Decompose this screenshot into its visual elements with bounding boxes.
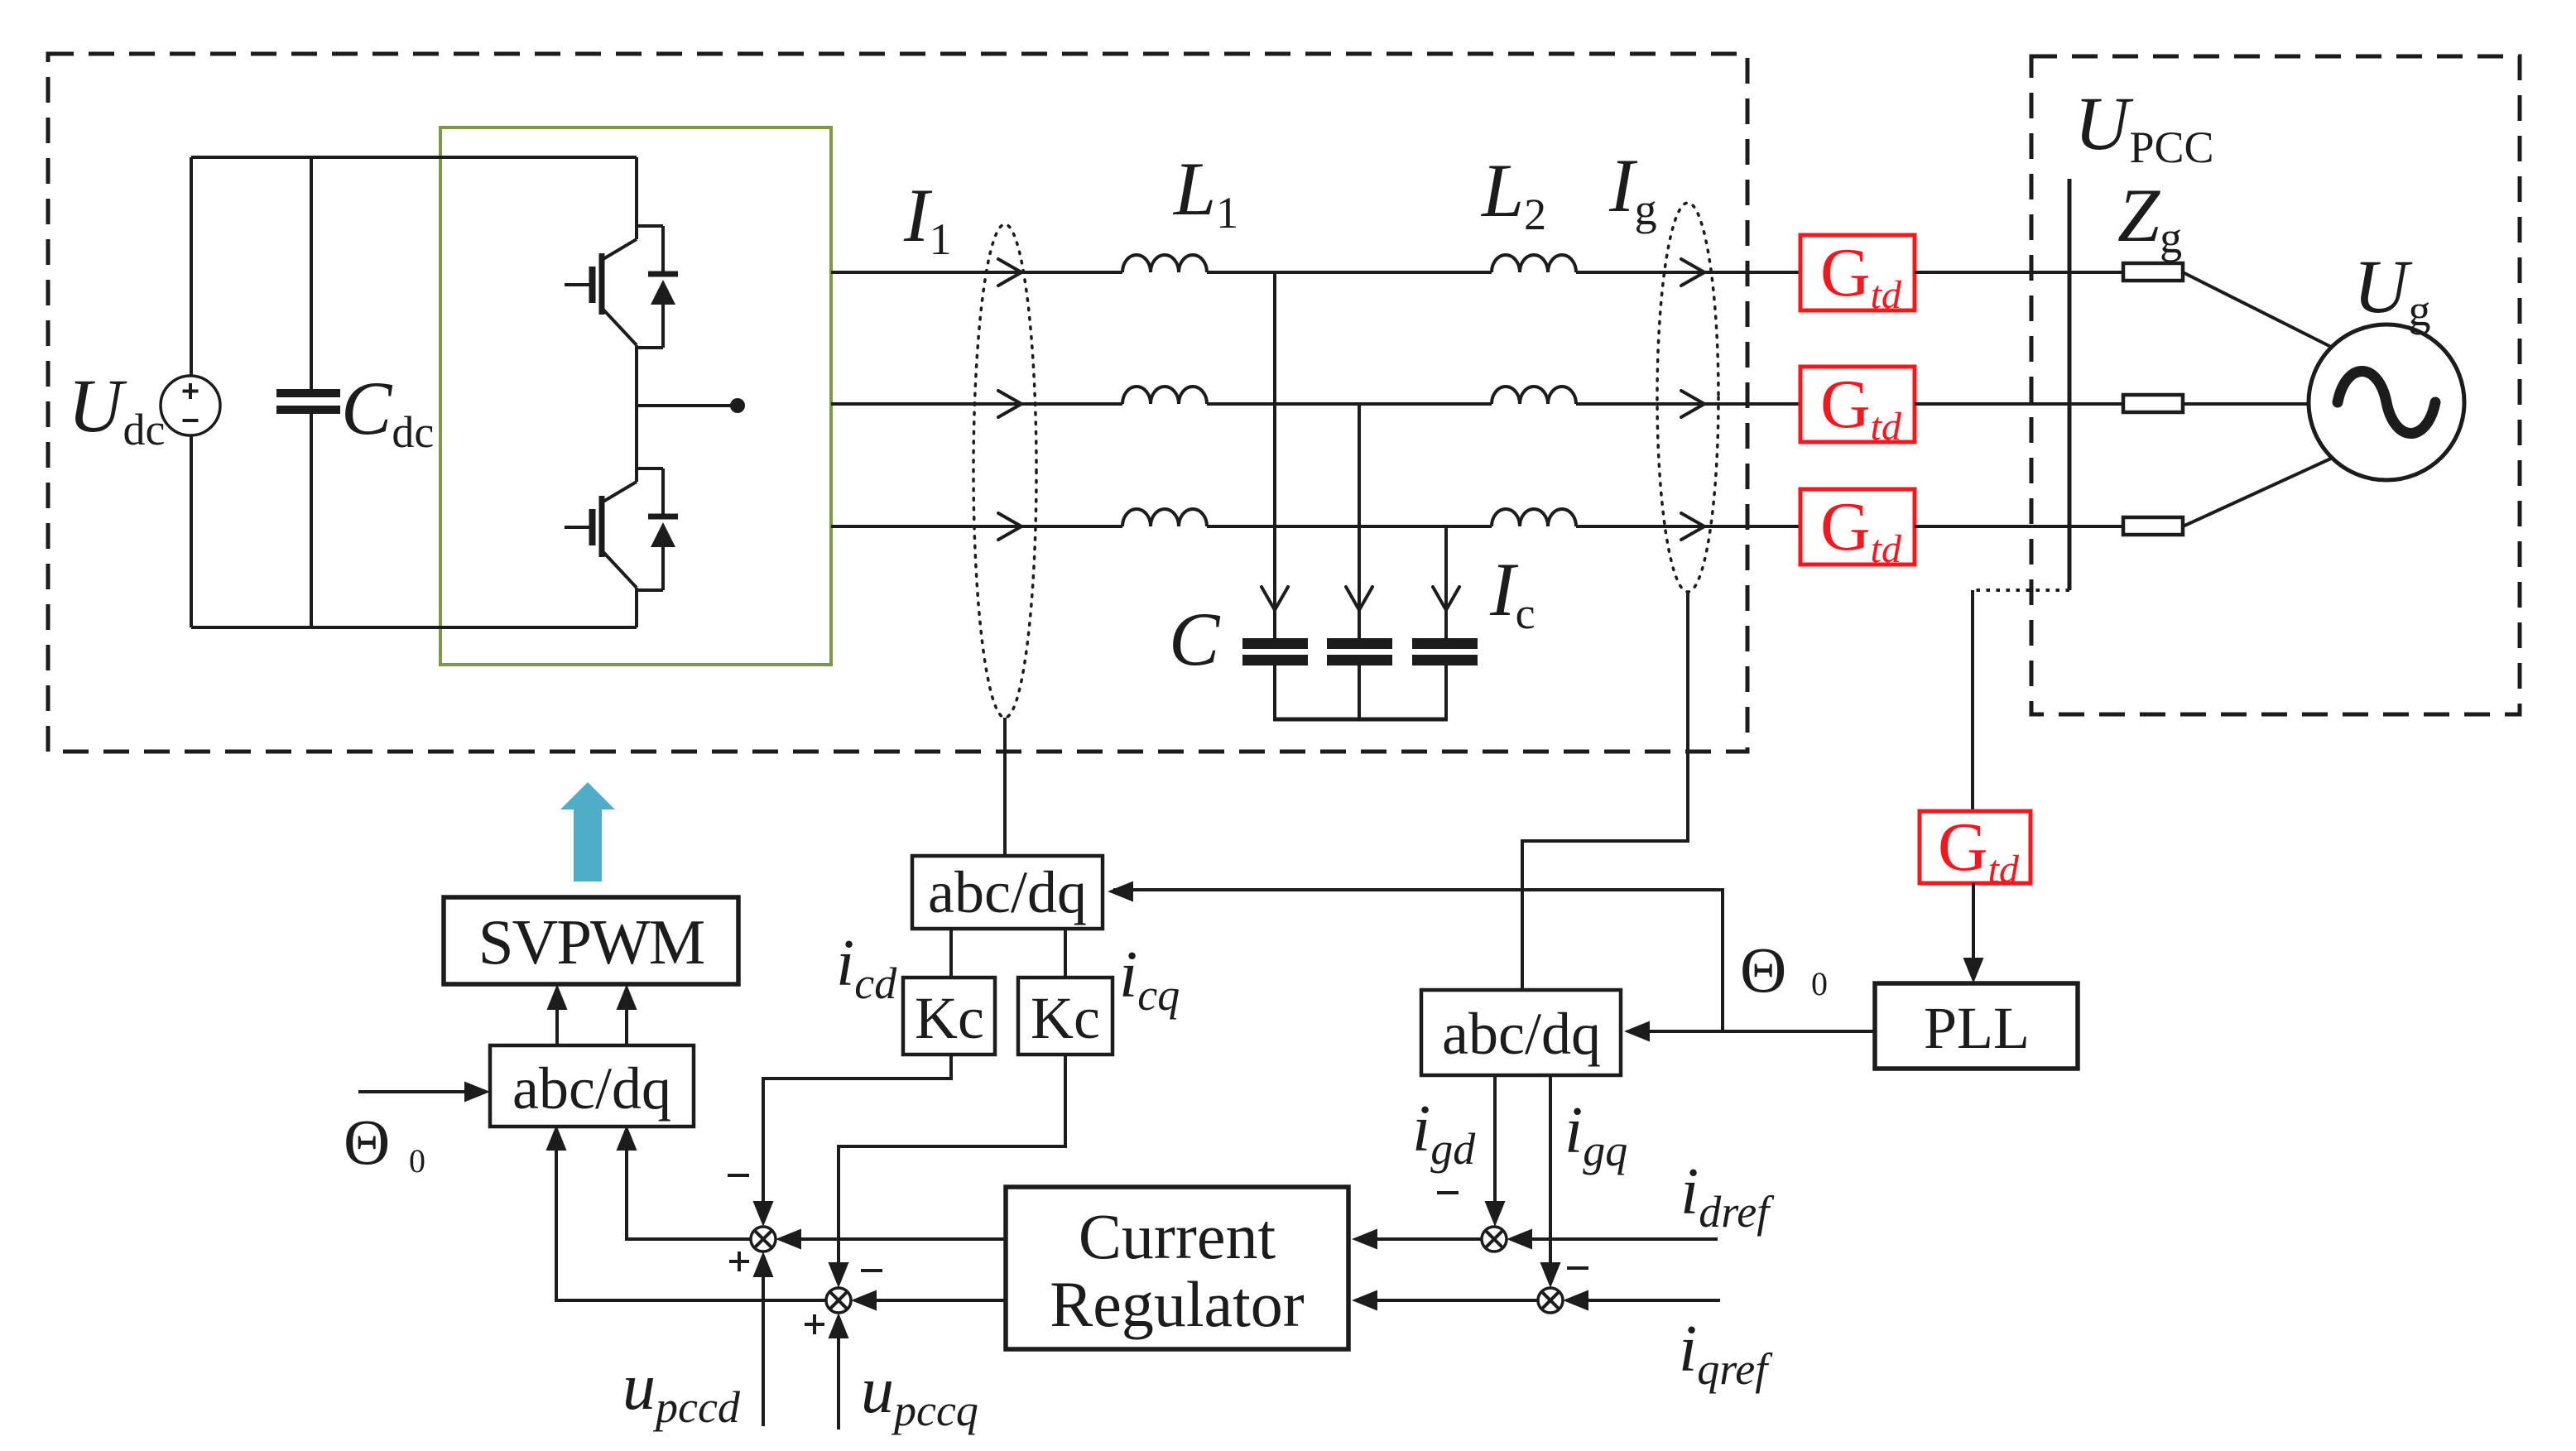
summing junction B (q-axis) [1538, 1288, 1563, 1313]
wire: phase C tap to capacitor 3 [1444, 526, 1448, 638]
wire: Udc branch vertical [190, 157, 193, 627]
wire: abc/dq inverse to SVPWM (d) [555, 990, 559, 1044]
wire: phase C line (to Gtd) [1576, 525, 1800, 528]
wire: igq output with arrow into sum B [1549, 1075, 1552, 1266]
wire: Gtd C output to resistor [1915, 525, 2123, 528]
wire: sum B output to Current Regulator [1357, 1299, 1538, 1302]
wire: Cdc branch vertical [310, 157, 313, 627]
svg-text:SVPWM: SVPWM [478, 906, 704, 978]
wire: Current Regulator q output to sum 2 [856, 1299, 1006, 1302]
svg-text:Kc: Kc [1031, 985, 1100, 1051]
arrow on phase C in I1 sensor [998, 513, 1021, 540]
current sensor ellipse I1 [973, 224, 1036, 718]
block abc/dq (capacitor current) [912, 856, 1103, 929]
wire: I1 measurement down to abc/dq [1003, 718, 1007, 856]
svg-text:C: C [1169, 597, 1221, 681]
svg-text:0: 0 [1811, 965, 1828, 1002]
inductor L1 phase A [1122, 255, 1207, 272]
svg-text:abc/dq: abc/dq [512, 1055, 671, 1122]
wire: phase C line (left of L1) [831, 525, 1122, 528]
wire: Current Regulator d output to sum 1 [781, 1237, 1006, 1241]
svg-text:Kc: Kc [915, 985, 984, 1051]
wire: sum 1 output to abc/dq inverse [627, 1131, 751, 1239]
wire: upccd feedforward into sum 1 [762, 1275, 765, 1426]
resistor Zg phase C [2123, 517, 2183, 535]
svg-text:Regulator: Regulator [1050, 1268, 1305, 1340]
summing junction 2 (q-axis modulation) [826, 1288, 851, 1313]
wire: Gtd A output to resistor [1915, 271, 2123, 274]
wire: idref into sum A [1511, 1237, 1718, 1241]
wire: dotted PCC voltage tap [1973, 589, 2069, 592]
block Kc (d-axis) [903, 978, 995, 1055]
wire: iqref into sum B [1568, 1299, 1720, 1302]
wire: DC bus top rail [191, 156, 637, 159]
wire: igd output with arrow into sum A [1493, 1075, 1497, 1204]
node: PCC bus bar [2068, 179, 2072, 590]
minus sign (igq into sum B) [1567, 1266, 1588, 1270]
summing junction 1 (d-axis modulation) [751, 1227, 776, 1252]
svg-text:0: 0 [409, 1142, 425, 1180]
wire: phase A line (left of L1) [831, 271, 1122, 274]
capacitor C3 [1412, 638, 1478, 649]
voltage source Ug (grid) [2309, 324, 2464, 480]
wire: midpoint vertical [635, 345, 638, 482]
wire: theta0 branch up and to mid abc/dq [1113, 890, 1723, 1031]
svg-text:Θ: Θ [1740, 934, 1786, 1006]
arrow on phase B in Ig sensor [1681, 391, 1704, 417]
wire: phase B tap to capacitor 2 [1358, 404, 1361, 638]
wire: sum A output to Current Regulator [1357, 1237, 1482, 1241]
wire: upper collector lead [635, 157, 638, 239]
arrow on phase C in Ig sensor [1681, 513, 1704, 540]
dashed boundary box (inverter + LCL filter system) [48, 54, 1747, 752]
wire: sum 2 output to abc/dq inverse [556, 1131, 826, 1300]
arrow Ic on capacitor 3 leg [1433, 587, 1459, 610]
resistor Zg phase A [2123, 263, 2183, 281]
wire: phase output to node [637, 404, 738, 407]
wire: phase B line (L1 to L2) [1207, 402, 1492, 406]
minus sign (Kc d into sum 1) [728, 1174, 749, 1177]
dashed boundary box (grid / PCC section) [2031, 56, 2520, 714]
wire: PCC tap down to Gtd [1971, 590, 1974, 811]
svg-text:abc/dq: abc/dq [928, 859, 1087, 925]
inductor L2 phase A [1492, 255, 1576, 272]
arrow on phase A in I1 sensor [998, 259, 1021, 286]
summing junction A (d-axis) [1482, 1227, 1507, 1252]
arrow Ic on capacitor 2 leg [1346, 587, 1372, 610]
wire: upccq feedforward into sum 2 [837, 1336, 840, 1429]
wire: abc/dq inverse to SVPWM (q) [625, 990, 628, 1044]
block Current Regulator [1006, 1187, 1348, 1349]
plus sign (upccd into sum 1) [729, 1252, 749, 1271]
svg-text:PLL: PLL [1924, 995, 2030, 1061]
wire: phase B line (left of L1) [831, 402, 1122, 406]
wire: Ig measurement down to abc/dq [1522, 592, 1688, 990]
resistor Zg phase B [2123, 395, 2183, 412]
block Kc (q-axis) [1018, 978, 1113, 1055]
block abc/dq (grid current) [1421, 990, 1621, 1075]
delay block Gtd (PLL input) [1920, 811, 2031, 883]
plus sign (upccq into sum 2) [805, 1314, 824, 1334]
wire: capacitor 2 lower leg [1358, 665, 1361, 719]
arrow Ic on capacitor 1 leg [1262, 587, 1288, 610]
block PLL [1875, 983, 2078, 1069]
wire: PLL theta0 output to abc/dq [1629, 1030, 1875, 1033]
diode D1 (upper anti-parallel) [637, 226, 678, 348]
capacitor C2 [1327, 638, 1392, 649]
wire: capacitor 3 lower leg [1444, 665, 1448, 719]
inductor L1 phase B [1122, 387, 1207, 404]
wire: phase C line (L1 to L2) [1207, 525, 1492, 528]
wire: phase A line (L1 to L2) [1207, 271, 1492, 274]
wire: capacitor 1 lower leg [1273, 665, 1276, 719]
wire: capacitor common bus [1273, 718, 1448, 722]
wire: resistor A to grid source [2183, 272, 2333, 348]
capacitor C1 [1242, 638, 1308, 649]
wire: Gtd B output to resistor [1915, 402, 2123, 406]
delay block Gtd phase C [1800, 489, 1915, 565]
arrow on phase A in Ig sensor [1681, 259, 1704, 286]
voltage source Udc [161, 376, 220, 435]
wire: theta0 input into abc/dq inverse [358, 1090, 483, 1093]
block SVPWM [444, 897, 738, 984]
svg-text:Current: Current [1079, 1200, 1276, 1272]
inverter green outline box [440, 127, 831, 665]
wire: phase A tap to capacitor 1 [1273, 272, 1276, 638]
wire: resistor C to grid source [2183, 458, 2333, 526]
inductor L2 phase B [1492, 387, 1576, 404]
wire: abc/dq to Kc (d) [949, 929, 953, 978]
wire: Kc q feedback to sum 2 [839, 1055, 1065, 1266]
delay block Gtd phase B [1800, 367, 1915, 442]
wire: resistor B to grid source [2183, 402, 2309, 406]
diode D2 (lower anti-parallel) [637, 468, 678, 590]
transistor Q2 (lower IGBT) [565, 482, 637, 588]
inductor L2 phase C [1492, 509, 1576, 526]
inductor L1 phase C [1122, 509, 1207, 526]
wire: Kc d feedback to sum 1 [763, 1055, 951, 1204]
svg-text:Θ: Θ [344, 1106, 390, 1178]
wire: DC bus bottom rail [191, 626, 637, 629]
node: inverter output dot [730, 398, 745, 413]
wire: Gtd to PLL with arrow [1972, 883, 1975, 960]
current sensor ellipse Ig [1657, 203, 1718, 592]
arrow on phase B in I1 sensor [998, 391, 1021, 417]
svg-text:abc/dq: abc/dq [1442, 1001, 1601, 1067]
capacitor Cdc [276, 389, 340, 397]
delay block Gtd phase A [1800, 235, 1915, 310]
minus sign (igd into sum A) [1437, 1191, 1459, 1194]
wire: phase B line (to Gtd) [1576, 402, 1800, 406]
wire: phase A line (to Gtd) [1576, 271, 1800, 274]
wire: lower emitter lead [635, 588, 638, 627]
modulation arrow to inverter (cyan) [560, 782, 615, 882]
transistor Q1 (upper IGBT) [565, 239, 637, 345]
minus sign (Kc q into sum 2) [861, 1269, 882, 1272]
block abc/dq (inverse transform) [490, 1045, 694, 1127]
wire: abc/dq to Kc (q) [1064, 929, 1067, 978]
